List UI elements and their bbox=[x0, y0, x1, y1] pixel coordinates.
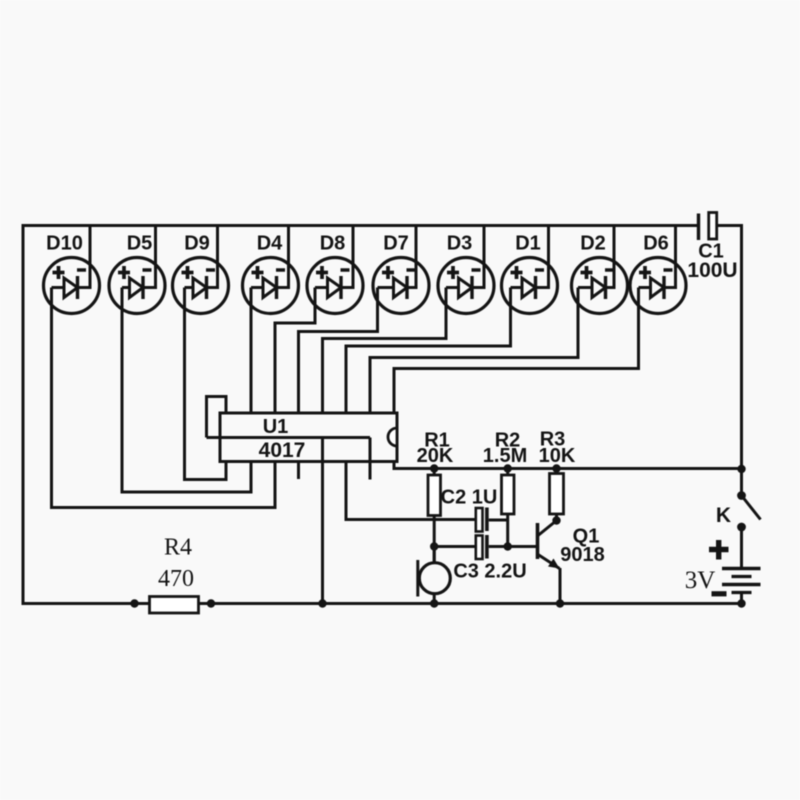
LED D2 bbox=[370, 226, 628, 414]
node R1 top junction bbox=[430, 464, 438, 472]
svg-text:4017: 4017 bbox=[259, 439, 306, 462]
svg-text:C3 2.2U: C3 2.2U bbox=[453, 561, 526, 583]
LED D10 bbox=[44, 226, 276, 508]
svg-text:D10: D10 bbox=[46, 233, 83, 255]
svg-text:20K: 20K bbox=[417, 445, 454, 467]
svg-text:3V: 3V bbox=[685, 567, 716, 594]
transistor Q1 9018 bbox=[508, 521, 605, 604]
svg-text:K: K bbox=[716, 504, 731, 527]
node R4 left junction bbox=[130, 599, 138, 607]
svg-text:9018: 9018 bbox=[560, 544, 605, 566]
svg-text:D8: D8 bbox=[320, 233, 346, 255]
svg-text:D9: D9 bbox=[184, 233, 210, 255]
wire U1 pin8 to ground bus bbox=[321, 462, 324, 604]
svg-text:D1: D1 bbox=[515, 233, 541, 255]
battery 3V bbox=[685, 527, 761, 604]
svg-text:D5: D5 bbox=[127, 233, 153, 255]
svg-text:U1: U1 bbox=[263, 416, 289, 438]
wire top negative bus bbox=[23, 224, 697, 227]
node mic ground junction bbox=[430, 599, 438, 607]
LED D8 bbox=[275, 226, 363, 414]
LED D9 bbox=[173, 226, 229, 480]
svg-text:D4: D4 bbox=[257, 233, 283, 255]
node R2 top junction bbox=[504, 464, 512, 472]
LED D1 bbox=[346, 226, 558, 414]
wire left border bbox=[22, 224, 25, 604]
resistor R1 20K bbox=[417, 430, 454, 564]
node supply rail right junction bbox=[737, 465, 745, 473]
svg-text:100U: 100U bbox=[687, 259, 737, 282]
wire right vertical from C1 to switch bbox=[740, 224, 743, 469]
svg-text:10K: 10K bbox=[539, 445, 576, 467]
LED D7 bbox=[299, 226, 430, 414]
node battery ground junction bbox=[737, 599, 745, 607]
svg-text:1.5M: 1.5M bbox=[483, 445, 527, 467]
op-amp U1 4017 decade counter bbox=[207, 413, 398, 462]
LED D3 bbox=[323, 226, 495, 414]
wire U1 pin to C2 bbox=[346, 462, 476, 520]
wire U1 pin16 to supply rail bbox=[394, 462, 742, 469]
node R3 top junction bbox=[552, 464, 560, 472]
wire bottom ground bus bbox=[22, 602, 742, 605]
LED D6 bbox=[394, 226, 686, 414]
capacitor C1 100U bbox=[687, 213, 743, 283]
node R4 right junction bbox=[207, 599, 215, 607]
microphone MIC bbox=[418, 547, 451, 604]
wire U1 bottom pin stub B bbox=[369, 462, 372, 480]
resistor R4 470 bbox=[150, 535, 199, 614]
node pin8 ground junction bbox=[318, 599, 326, 607]
switch K bbox=[716, 469, 761, 532]
capacitor C3 2.2U bbox=[434, 535, 526, 583]
svg-text:D6: D6 bbox=[643, 233, 669, 255]
resistor R2 1.5M bbox=[483, 430, 527, 547]
node emitter ground junction bbox=[556, 599, 564, 607]
svg-text:D3: D3 bbox=[447, 233, 473, 255]
LED D4 bbox=[243, 226, 299, 414]
LED D5 bbox=[109, 226, 251, 493]
node R2 C3 base junction bbox=[504, 542, 512, 550]
svg-text:C2 1U: C2 1U bbox=[441, 487, 498, 509]
node R1 C3 mic junction bbox=[430, 542, 438, 550]
svg-text:470: 470 bbox=[158, 566, 194, 592]
svg-text:D2: D2 bbox=[580, 233, 606, 255]
node R3 collector junction bbox=[552, 516, 560, 524]
wire U1 bottom pin stub A bbox=[297, 462, 300, 480]
capacitor C2 1U bbox=[441, 487, 508, 532]
svg-text:R4: R4 bbox=[164, 535, 192, 561]
svg-text:D7: D7 bbox=[383, 233, 409, 255]
resistor R3 10K bbox=[539, 429, 576, 521]
wire U1 pin1 bracket loop bbox=[207, 397, 227, 438]
